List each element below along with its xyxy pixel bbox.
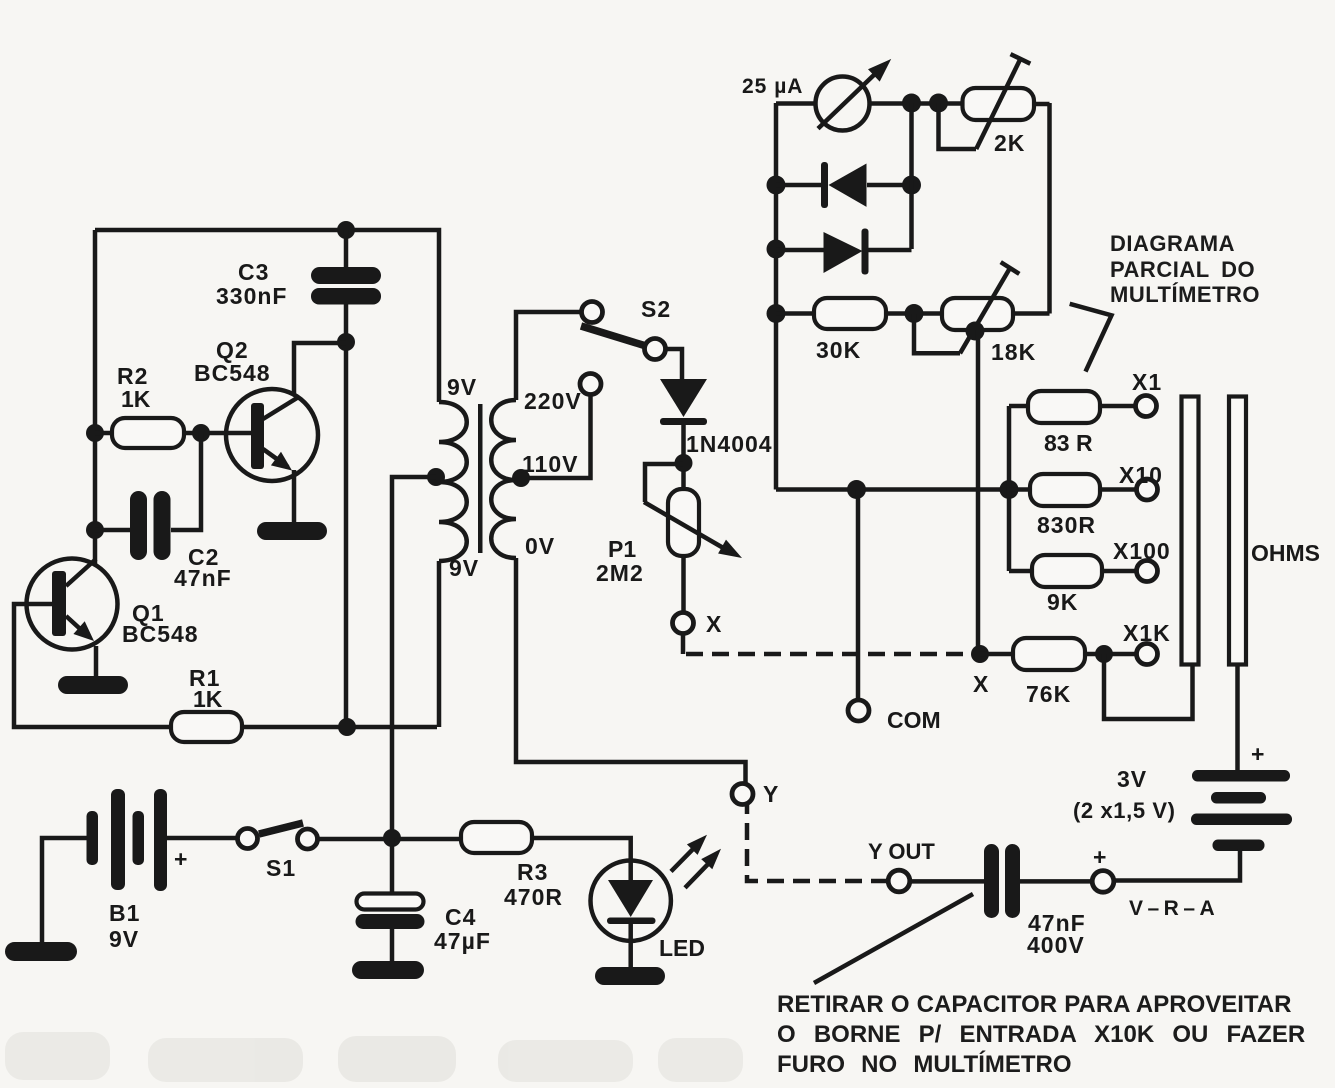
wire: centre tap branch to battery rail: [392, 477, 436, 838]
capacitor C4 (electrolytic): [356, 894, 425, 930]
wire: secondary top (220V end) up to S2 fixed contact: [516, 312, 581, 400]
svg-text:400V: 400V: [1027, 932, 1085, 958]
terminal X (output of P1): [673, 613, 694, 634]
wire: P1 wiper loop (junction left then down): [645, 464, 684, 502]
capacitor C5 47nF 400V: [984, 844, 1020, 918]
node: COM tap junction: [847, 480, 866, 499]
wire: C3 column upper stub: [344, 230, 349, 268]
svg-text:9K: 9K: [1047, 589, 1078, 615]
wire: dashed link Y OUT to Y terminal: [747, 805, 888, 881]
svg-text:MULTÍMETRO: MULTÍMETRO: [1110, 282, 1260, 307]
svg-text:2M2: 2M2: [596, 560, 644, 586]
svg-text:B1: B1: [109, 900, 140, 926]
ground (C4): [352, 961, 424, 979]
wire: 110V contact down and left to secondary centre tap: [521, 395, 591, 478]
svg-text:220V: 220V: [524, 388, 582, 414]
meter M1 (25uA movement): [816, 59, 892, 131]
terminal X1K: [1137, 644, 1158, 665]
svg-text:9V: 9V: [447, 374, 477, 400]
wire: meter bridge left bus: [774, 103, 779, 490]
svg-text:C4: C4: [445, 904, 476, 930]
wire: X1K junction loop to probe bar 1: [1104, 654, 1193, 719]
wire: R2 left lead: [95, 431, 112, 436]
svg-text:X: X: [973, 671, 989, 697]
wire: COM column: [856, 490, 861, 701]
capacitor C2: [130, 491, 171, 560]
diode D3 (points left): [821, 162, 867, 208]
wire: B1 negative to ground: [42, 838, 87, 944]
LED light arrow 2: [685, 849, 721, 888]
svg-text:9V: 9V: [109, 926, 139, 952]
transformer T1 core: [478, 404, 483, 553]
node: X1K pick-off junction: [1095, 645, 1113, 663]
wire: 2K right lead to right bus: [1034, 102, 1050, 107]
potentiometer P1 wiper arrow: [644, 502, 742, 558]
trimpot 2K body: [963, 88, 1035, 120]
resistor R2: [112, 418, 184, 448]
wire: junction down to C4 top plate: [390, 838, 395, 894]
wire: Q2 collector lead: [294, 343, 346, 394]
trimpot 18K body: [942, 298, 1013, 330]
svg-text:30K: 30K: [816, 337, 861, 363]
trimpot 2K wiper arrow with T-bar: [976, 54, 1030, 149]
ghost print-through smudges bottom left: [5, 1032, 743, 1082]
switch S1: [238, 823, 318, 849]
node: diode cathode / P1 wiper loop junction: [675, 454, 693, 472]
wire: Q2 emitter to ground: [292, 470, 297, 524]
node: X node (dashed link / wiper column / 76K): [971, 645, 989, 663]
wire: 9K left lead: [1009, 569, 1032, 574]
wire: diode column (top rail to D4 row): [909, 103, 914, 249]
svg-text:47µF: 47µF: [434, 928, 491, 954]
trimpot 18K wiper arrow with T-bar: [960, 262, 1019, 353]
node: R1 rail / C3 column junction: [338, 718, 356, 736]
svg-text:1N4004: 1N4004: [686, 431, 773, 457]
capacitor C3: [311, 267, 381, 305]
wire: C2 left lead: [95, 528, 130, 533]
wire: D4 left lead: [776, 248, 824, 253]
wire: R2 right lead to Q2 base: [184, 431, 253, 436]
svg-text:X1K: X1K: [1123, 620, 1171, 646]
wire: S2 pole to diode anode: [666, 349, 683, 381]
wire: D3 right lead: [867, 183, 912, 188]
svg-text:3V: 3V: [1117, 766, 1147, 792]
svg-text:830R: 830R: [1037, 512, 1096, 538]
transistor Q2: [226, 389, 318, 481]
ground (Q2 emitter): [257, 522, 327, 540]
resistor 9K: [1032, 555, 1102, 587]
svg-text:S1: S1: [266, 855, 296, 881]
wire: primary bottom down to R1 rail: [437, 561, 442, 727]
wire: 830R right lead to X10 terminal: [1100, 487, 1136, 492]
potentiometer P1 body: [668, 489, 699, 556]
svg-text:1K: 1K: [193, 686, 223, 712]
wire: R3 right lead to LED anode: [532, 838, 631, 861]
resistor 830R: [1030, 474, 1100, 506]
svg-text:Y OUT: Y OUT: [868, 839, 935, 864]
wire: bridge top rail right segment: [869, 101, 962, 106]
svg-text:X1: X1: [1132, 369, 1162, 395]
LED light arrow 1: [671, 835, 707, 872]
wire: branch from R2 right junction down to C2 right plate: [171, 433, 201, 530]
terminal: S2 pole: [645, 339, 666, 360]
svg-text:9V: 9V: [449, 555, 479, 581]
wire: left bus vertical (top rail down to Q1 collector): [93, 230, 98, 566]
wire: 9K right lead to X100 terminal: [1102, 569, 1136, 574]
wire: diode cathode down to P1 top: [681, 425, 686, 489]
svg-text:O BORNE P/ ENTRADA X10K OU FAZ: O BORNE P/ ENTRADA X10K OU FAZER: [777, 1021, 1305, 1048]
resistor 76K: [1013, 638, 1085, 670]
wire: Q1 emitter to ground: [94, 646, 99, 678]
wire: 76K left lead: [980, 652, 1013, 657]
node: C2 left junction on left bus: [86, 521, 104, 539]
ground (Q1 emitter): [58, 676, 128, 694]
wire: bridge top rail left segment: [776, 101, 816, 106]
diode D1 1N4004: [660, 379, 707, 425]
svg-text:18K: 18K: [991, 339, 1036, 365]
svg-text:RETIRAR O CAPACITOR PARA APROV: RETIRAR O CAPACITOR PARA APROVEITAR: [777, 991, 1291, 1018]
svg-text:R3: R3: [517, 859, 548, 885]
svg-text:470R: 470R: [504, 884, 563, 910]
svg-text:+: +: [174, 846, 188, 872]
node: D3 right junction: [902, 176, 921, 195]
node: R2 left junction on left bus: [86, 424, 104, 442]
wire: 18K wiper column down to X node: [976, 330, 981, 654]
wire: R1 right lead to transformer primary bottom: [242, 725, 437, 730]
svg-text:DIAGRAMA: DIAGRAMA: [1110, 231, 1235, 256]
terminal Y: [732, 784, 753, 805]
ground (B1 negative): [5, 942, 77, 961]
wire: C5 to Y OUT terminal: [910, 879, 984, 884]
wire: 18K wiper loop: [914, 314, 960, 354]
svg-text:C3: C3: [238, 259, 269, 285]
node: top rail / 2K wiper loop junction: [929, 94, 948, 113]
svg-text:Y: Y: [763, 781, 779, 807]
svg-text:PARCIAL DO: PARCIAL DO: [1110, 257, 1255, 282]
probe bar 1: [1182, 397, 1199, 665]
svg-text:25 µA: 25 µA: [742, 75, 803, 98]
terminal X100: [1137, 561, 1158, 582]
terminal: S2 fixed contact 220V: [582, 302, 603, 323]
wire: Q1 base loop down to R1 left lead: [14, 604, 171, 727]
wire: X terminal stub down: [681, 634, 686, 655]
wire: 18K right lead to right bus: [1013, 311, 1050, 316]
resistor 30K: [814, 298, 886, 329]
node: battery rail / centre-tap column / C4 junction: [383, 829, 401, 847]
terminal: 110V tap contact: [580, 374, 601, 395]
wire: 30K left lead: [776, 311, 814, 316]
svg-text:76K: 76K: [1026, 681, 1071, 707]
wire: 30K right lead to 18K left lead: [886, 311, 942, 316]
wire: 76K right lead to X1K terminal: [1085, 652, 1136, 657]
node: junction top rail / C3 column: [337, 221, 355, 239]
wire: top supply rail from left bus to transformer primary top: [95, 230, 439, 402]
svg-text:0V: 0V: [525, 533, 555, 559]
svg-text:+: +: [1251, 741, 1265, 767]
node: secondary centre tap: [512, 469, 530, 487]
callout line to capacitor C5: [814, 894, 973, 983]
label DIAGRAMA PARCIAL DO MULTIMETRO: [1110, 231, 1260, 307]
wire: B1 positive to S1: [167, 836, 236, 841]
resistor 83R: [1028, 391, 1100, 423]
ground (LED): [595, 967, 665, 985]
wire: S1 to R3 left lead (battery rail): [318, 837, 462, 842]
terminal X10: [1137, 479, 1158, 500]
wire: range divider bus: [1007, 406, 1012, 571]
wire: 830R left lead: [1009, 487, 1030, 492]
terminal V-R-A: [1092, 871, 1114, 893]
svg-text:P1: P1: [608, 536, 636, 562]
switch S2 blade: [581, 326, 646, 346]
wire: bridge right bus: [1047, 103, 1052, 314]
svg-text:V–R–A: V–R–A: [1129, 897, 1219, 920]
svg-text:COM: COM: [887, 707, 941, 733]
node: 18K wiper pick-off: [966, 322, 985, 341]
svg-text:(2 x1,5 V): (2 x1,5 V): [1073, 798, 1176, 823]
transformer T1 secondary winding: [491, 400, 516, 558]
battery B1: [87, 789, 168, 891]
svg-text:OHMS: OHMS: [1251, 540, 1320, 566]
svg-text:FURO NO MULTÍMETRO: FURO NO MULTÍMETRO: [777, 1050, 1072, 1078]
wire: V-R-A terminal to capacitor C5: [1020, 879, 1092, 884]
svg-text:LED: LED: [659, 935, 705, 961]
node: Q2 collector junction on C3 column: [337, 333, 355, 351]
wire: 2K wiper loop: [939, 103, 977, 149]
node: 30K row left junction: [767, 304, 786, 323]
svg-text:BC548: BC548: [122, 621, 199, 647]
wire: dashed link X terminal to multimeter X node: [686, 652, 978, 657]
terminal X1: [1136, 396, 1157, 417]
wire: C4 bottom to ground: [390, 929, 395, 963]
svg-text:X: X: [706, 611, 722, 637]
terminal COM: [848, 700, 869, 721]
wire: 83R left lead: [1009, 404, 1028, 409]
svg-text:BC548: BC548: [194, 360, 271, 386]
svg-text:330nF: 330nF: [216, 283, 287, 309]
probe bar 2: [1229, 397, 1246, 665]
svg-text:2K: 2K: [994, 130, 1025, 156]
svg-text:S2: S2: [641, 296, 671, 322]
wire: D4 right lead: [868, 248, 912, 253]
transistor Q1: [27, 559, 118, 650]
wire: P1 bottom to X terminal: [681, 556, 686, 612]
wire: secondary bottom (0V end) down and right to Y terminal: [516, 558, 746, 784]
wire: bridge bottom rail to divider bus: [776, 487, 1009, 492]
svg-text:47nF: 47nF: [174, 565, 232, 591]
wire: D3 anode-side lead: [776, 183, 824, 188]
wire: LED cathode to ground: [628, 941, 633, 968]
svg-text:110V: 110V: [522, 451, 578, 477]
svg-text:X100: X100: [1113, 538, 1171, 564]
node: top rail / diode column junction: [902, 94, 921, 113]
node: diode D4 row left junction: [767, 240, 786, 259]
wire: C3 column down to R1 rail: [344, 304, 349, 726]
wire: 83R right lead to X1 terminal: [1100, 404, 1135, 409]
resistor R1: [171, 712, 242, 742]
svg-text:+: +: [1093, 844, 1107, 870]
wire: 3V negative down and left to V-R-A terminal: [1114, 849, 1240, 881]
node: R2 right / C2 branch junction: [192, 424, 210, 442]
svg-text:1K: 1K: [121, 386, 151, 412]
battery 3V (2x1.5V): [1191, 770, 1292, 851]
node: 30K/18K junction: [905, 304, 924, 323]
resistor R3: [461, 822, 532, 853]
wire: probe bar 2 to 3V battery positive: [1235, 665, 1240, 772]
node: divider bus junction: [1000, 480, 1019, 499]
svg-text:X10: X10: [1119, 462, 1163, 488]
svg-text:83 R: 83 R: [1044, 430, 1093, 456]
diode D4 (points right): [824, 229, 869, 275]
node: diode D3 row left junction: [767, 176, 786, 195]
callout pointer (multimetro): [1070, 304, 1112, 372]
transformer T1 primary winding: [439, 402, 467, 561]
LED D2: [591, 861, 671, 942]
terminal Y OUT: [888, 870, 910, 892]
node: primary centre tap: [427, 468, 445, 486]
